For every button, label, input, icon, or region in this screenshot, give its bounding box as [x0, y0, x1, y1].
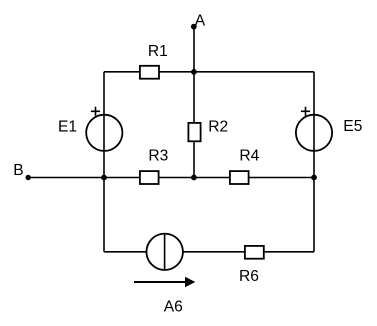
svg-text:A6: A6: [164, 298, 183, 315]
svg-text:E1: E1: [58, 118, 77, 135]
wire R2 lower stub: [193, 141, 195, 177]
wire R2 upper stub: [193, 72, 195, 123]
wire R6 to bottom-right corner: [264, 251, 314, 253]
resistor R1: [140, 43, 168, 79]
voltage source E1: [58, 107, 122, 151]
wire top-left segment: [104, 71, 140, 73]
wire B to R3: [28, 177, 140, 179]
wire R3 to middle junction: [159, 177, 230, 179]
wire left vertical branch (through E1): [103, 72, 105, 252]
svg-text:E5: E5: [343, 118, 362, 135]
junction dot (R2 / R3 / R4): [191, 175, 197, 181]
junction dot (A / R1 / R2 / right branch): [191, 69, 197, 75]
wire node A to top junction: [193, 27, 195, 72]
resistor R4: [230, 148, 260, 184]
resistor R3: [140, 148, 168, 184]
node B: [13, 162, 31, 180]
svg-text:R1: R1: [148, 43, 168, 60]
svg-text:R6: R6: [239, 268, 259, 285]
svg-text:R3: R3: [148, 148, 168, 165]
svg-text:B: B: [13, 162, 23, 179]
junction dot (E1 branch / B wire): [101, 175, 107, 181]
voltage source E5: [296, 107, 363, 151]
current source A6: [134, 234, 195, 316]
wire bottom-left segment: [104, 251, 147, 253]
node A: [191, 13, 206, 30]
wire A6 to R6: [183, 251, 245, 253]
svg-text:R2: R2: [208, 118, 228, 135]
junction dot (R4 / E5 branch): [311, 175, 317, 181]
resistor R2: [188, 118, 228, 141]
svg-text:R4: R4: [239, 148, 259, 165]
wire right vertical branch (through E5): [313, 72, 315, 252]
svg-text:A: A: [195, 13, 206, 30]
resistor R6: [239, 246, 264, 285]
wire R1 to top junction: [159, 71, 194, 73]
wire top junction to top-right corner: [194, 71, 314, 73]
wire R4 to right branch: [249, 177, 314, 179]
